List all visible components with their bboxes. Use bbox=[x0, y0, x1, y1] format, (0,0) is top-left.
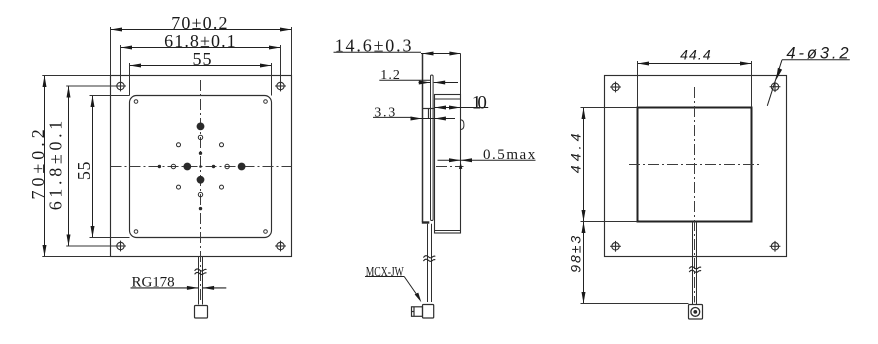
svg-text:MCX-JW: MCX-JW bbox=[366, 265, 405, 280]
svg-text:1.2: 1.2 bbox=[380, 68, 400, 83]
svg-text:10: 10 bbox=[472, 93, 487, 114]
svg-text:98±3: 98±3 bbox=[568, 236, 584, 273]
svg-text:3.3: 3.3 bbox=[374, 105, 395, 120]
svg-text:44.4: 44.4 bbox=[680, 46, 711, 62]
svg-text:61.8±0.1: 61.8±0.1 bbox=[164, 31, 236, 51]
svg-text:55: 55 bbox=[193, 49, 212, 69]
svg-text:55: 55 bbox=[74, 161, 94, 180]
svg-text:70±0.2: 70±0.2 bbox=[171, 13, 227, 33]
